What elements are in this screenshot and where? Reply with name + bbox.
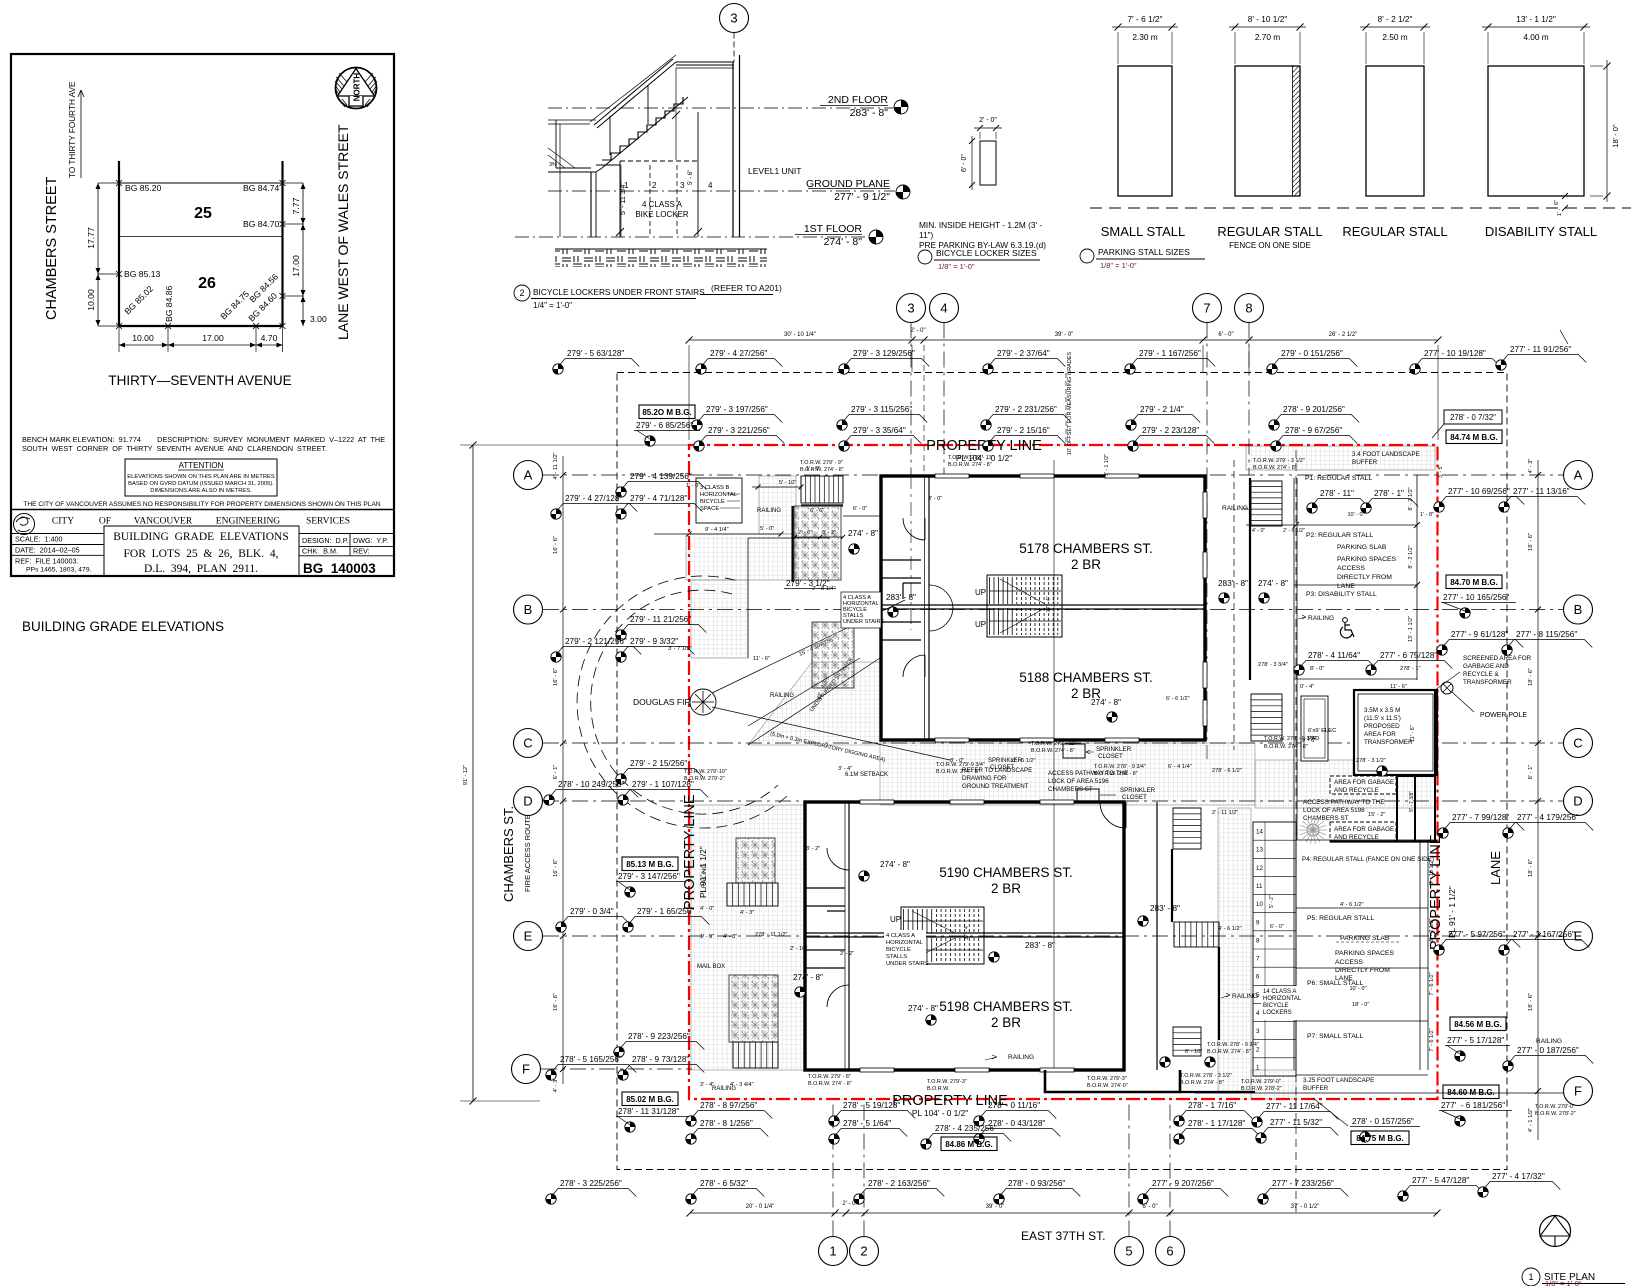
278-3 1/2 marker: [1377, 766, 1387, 776]
18'-0 vertical dim: [1606, 60, 1608, 202]
svg-text:5' - 0": 5' - 0": [760, 526, 774, 532]
svg-text:B.O.R.W. 274' - 8": B.O.R.W. 274' - 8": [936, 769, 980, 775]
svg-text:8' - 0": 8' - 0": [950, 758, 964, 764]
svg-text:SMALL STALL: SMALL STALL: [1101, 224, 1186, 239]
svg-text:SERVICES: SERVICES: [306, 517, 350, 527]
wall under bubble 3: [733, 33, 735, 63]
svg-text:6' - 4 1/4": 6' - 4 1/4": [1168, 764, 1192, 770]
svg-text:6' - 10": 6' - 10": [1185, 1049, 1202, 1055]
mid yard diagonal ramp lines: [748, 658, 880, 745]
svg-text:DATE: 2014–02–05: DATE: 2014–02–05: [15, 546, 80, 555]
svg-text:2' - 2": 2' - 2": [840, 951, 854, 957]
grid bubble D left: [514, 787, 543, 816]
svg-text:P5: REGULAR STALL: P5: REGULAR STALL: [1307, 915, 1374, 922]
svg-text:1' - 8": 1' - 8": [1420, 512, 1434, 518]
elec pad rect: [1301, 696, 1328, 761]
svg-text:B.O.R.W. 274' - 8": B.O.R.W. 274' - 8": [1031, 748, 1075, 754]
svg-text:3' - 2": 3' - 2": [822, 530, 836, 536]
svg-text:277' - 7 233/256": 277' - 7 233/256": [1272, 1179, 1334, 1188]
svg-text:2' - 11 1/2": 2' - 11 1/2": [1212, 810, 1238, 816]
svg-text:3: 3: [907, 301, 914, 316]
14 class A lockers note: [1261, 986, 1299, 1020]
svg-text:278' - 5 19/128": 278' - 5 19/128": [843, 1101, 900, 1110]
svg-text:A: A: [524, 468, 533, 483]
svg-text:278' - 6 5/32": 278' - 6 5/32": [700, 1179, 748, 1188]
sprinkler closet 2: [1077, 789, 1099, 803]
svg-text:1' - 9": 1' - 9": [700, 934, 714, 940]
sprinkler closet 1: [1063, 744, 1085, 758]
svg-text:11: 11: [1256, 883, 1263, 890]
svg-text:274' - 8": 274' - 8": [880, 860, 910, 869]
row3 dim callouts: [699, 426, 784, 444]
lower entry stairs: [727, 883, 778, 906]
svg-text:278' - 5 1/64": 278' - 5 1/64": [843, 1119, 891, 1128]
svg-text:P1: REGULAR STALL: P1: REGULAR STALL: [1305, 475, 1372, 482]
B row callouts right: [1442, 630, 1523, 648]
svg-text:274' - 8": 274' - 8": [1091, 698, 1121, 707]
svg-text:277' - 9 207/256": 277' - 9 207/256": [1152, 1179, 1214, 1188]
svg-text:REGULAR STALL: REGULAR STALL: [1217, 224, 1322, 239]
svg-text:BG 84.70: BG 84.70: [243, 219, 280, 229]
power pole symbol and label: [1441, 682, 1453, 694]
svg-text:277' - 11 13/16": 277' - 11 13/16": [1513, 487, 1570, 496]
parking stall divider P2/P3: [1294, 584, 1417, 586]
svg-text:4 CLASS A: 4 CLASS A: [886, 933, 915, 939]
svg-text:EAST 37TH ST.: EAST 37TH ST.: [1021, 1229, 1105, 1243]
svg-text:283' - 8": 283' - 8": [1025, 941, 1055, 950]
svg-text:B.O.R.W. 274' - 8": B.O.R.W. 274' - 8": [1264, 744, 1308, 750]
svg-text:T.O.R.W. 279' - 3 1/2": T.O.R.W. 279' - 3 1/2": [1253, 458, 1305, 464]
svg-text:BIKE LOCKER: BIKE LOCKER: [635, 210, 689, 219]
svg-text:B.O.R.W. 274' - 8": B.O.R.W. 274' - 8": [1207, 1049, 1251, 1055]
lower parking boundary: [1295, 840, 1297, 1070]
svg-text:2.70 m: 2.70 m: [1255, 32, 1280, 42]
grid line 8 vertical: [1248, 323, 1250, 476]
svg-text:274' - 8": 274' - 8": [1258, 579, 1288, 588]
svg-text:BUILDING GRADE ELEVATIONS: BUILDING GRADE ELEVATIONS: [22, 619, 224, 634]
svg-text:D.L. 394, PLAN 2911.: D.L. 394, PLAN 2911.: [144, 563, 258, 575]
svg-text:14: 14: [1256, 829, 1263, 836]
svg-text:9' - 7 3/8": 9' - 7 3/8": [1409, 791, 1415, 812]
svg-text:T.O.R.W. 279'-0": T.O.R.W. 279'-0": [1535, 1104, 1575, 1110]
svg-text:85.13 M B.G.: 85.13 M B.G.: [626, 860, 674, 869]
left dim 17.77 / 10.00: [97, 183, 99, 326]
svg-text:84.74 M B.G.: 84.74 M B.G.: [1450, 433, 1498, 442]
svg-text:277' - 11 91/256": 277' - 11 91/256": [1510, 345, 1571, 354]
red property line rectangle: [689, 445, 1438, 1099]
svg-text:POWER POLE: POWER POLE: [1480, 712, 1527, 719]
svg-text:91' - 12": 91' - 12": [463, 765, 469, 785]
BG corner marks: [116, 180, 122, 186]
svg-text:UNDER STAIRS: UNDER STAIRS: [843, 619, 885, 625]
svg-text:279' - 2 37/64": 279' - 2 37/64": [997, 349, 1050, 358]
lower building door top right: [1100, 802, 1126, 828]
svg-text:17.00: 17.00: [291, 255, 301, 277]
svg-text:278' - 6 1/2": 278' - 6 1/2": [1212, 768, 1242, 774]
svg-text:SCALE: 1:400: SCALE: 1:400: [15, 535, 63, 544]
svg-text:8' - 1": 8' - 1": [1528, 765, 1534, 780]
svg-text:4' - 3": 4' - 3": [740, 910, 754, 916]
svg-text:P7: SMALL STALL: P7: SMALL STALL: [1307, 1033, 1364, 1040]
svg-text:T.O.R.W. 279'-0": T.O.R.W. 279'-0": [1241, 1079, 1281, 1085]
svg-text:278' - 0 11/16": 278' - 0 11/16": [988, 1101, 1040, 1110]
svg-text:4' - 1 1/2": 4' - 1 1/2": [1528, 1108, 1534, 1132]
svg-text:CLOSET: CLOSET: [1122, 794, 1147, 801]
svg-text:BICYCLE: BICYCLE: [700, 499, 725, 505]
svg-text:T.O.R.W. 279' - 8": T.O.R.W. 279' - 8": [808, 1074, 851, 1080]
svg-text:FENCE ON ONE SIDE: FENCE ON ONE SIDE: [1229, 241, 1311, 250]
svg-text:274' - 8": 274' - 8": [908, 1004, 938, 1013]
svg-text:12: 12: [1256, 865, 1263, 872]
svg-text:279' - 9 3/32": 279' - 9 3/32": [630, 637, 678, 646]
svg-text:277' - 5 47/128": 277' - 5 47/128": [1412, 1176, 1469, 1185]
svg-text:278' - 8 97/256": 278' - 8 97/256": [700, 1101, 757, 1110]
svg-text:UP: UP: [975, 620, 986, 629]
svg-text:5190 CHAMBERS ST.: 5190 CHAMBERS ST.: [939, 865, 1073, 880]
svg-text:279' - 6 85/256": 279' - 6 85/256": [636, 421, 693, 430]
upper planter 1: [794, 506, 841, 580]
svg-text:PPs 1465, 1803, 479.: PPs 1465, 1803, 479.: [26, 567, 91, 574]
grid line D: [543, 800, 1563, 802]
svg-text:BICYCLE LOCKERS UNDER FRONT ST: BICYCLE LOCKERS UNDER FRONT STAIRS: [533, 287, 705, 297]
svg-text:17.77: 17.77: [86, 227, 96, 249]
svg-text:PARKING SPACES: PARKING SPACES: [1337, 556, 1397, 563]
svg-text:UP: UP: [975, 588, 986, 597]
upper building stair core: [987, 575, 1062, 637]
landscape buffer hatch top: [1246, 446, 1435, 470]
grid bubble 1 bottom: [819, 1237, 848, 1266]
svg-text:4' - 3 4/4": 4' - 3 4/4": [730, 1082, 754, 1088]
svg-text:TO THIRTY FOURTH AVE: TO THIRTY FOURTH AVE: [68, 81, 77, 178]
svg-text:13' - 1 1/2": 13' - 1 1/2": [1408, 616, 1414, 642]
svg-text:STALLS: STALLS: [886, 954, 907, 960]
svg-text:BICYCLE: BICYCLE: [1263, 1003, 1289, 1009]
svg-text:B.O.R.W. 274'-0": B.O.R.W. 274'-0": [1087, 1083, 1128, 1089]
svg-text:279' - 3 221/256": 279' - 3 221/256": [708, 426, 770, 435]
svg-text:4' - 6 1/2": 4' - 6 1/2": [1340, 902, 1364, 908]
svg-text:39' - 0": 39' - 0": [986, 1204, 1005, 1210]
svg-text:11"): 11"): [919, 230, 934, 240]
grid bubble F right: [1564, 1077, 1593, 1106]
grid line A: [543, 474, 1563, 476]
svg-text:CLOSET: CLOSET: [990, 765, 1014, 771]
svg-text:T.O.R.W. 278' - 9 3/4": T.O.R.W. 278' - 9 3/4": [1094, 764, 1146, 770]
attention box: [125, 459, 277, 496]
svg-text:A: A: [1574, 468, 1583, 483]
svg-text:B: B: [524, 602, 533, 617]
svg-text:1/8" = 1'-0": 1/8" = 1'-0": [1545, 1279, 1582, 1286]
svg-text:REGULAR STALL: REGULAR STALL: [1342, 224, 1447, 239]
svg-text:FOR LOTS 25 & 26, BLK. 4: FOR LOTS 25 & 26, BLK. 4,: [124, 548, 279, 560]
svg-text:RAILING: RAILING: [1232, 993, 1258, 1000]
svg-text:279' - 0 151/256": 279' - 0 151/256": [1281, 349, 1343, 358]
svg-text:LANE WEST OF WALES STREET: LANE WEST OF WALES STREET: [335, 124, 351, 340]
svg-text:4: 4: [1256, 1010, 1260, 1017]
top row dim callouts: [558, 349, 639, 367]
svg-text:RAILING: RAILING: [1536, 1038, 1562, 1045]
svg-text:9' - 4 1/4": 9' - 4 1/4": [705, 527, 729, 533]
svg-text:5188 CHAMBERS ST.: 5188 CHAMBERS ST.: [1019, 670, 1153, 685]
svg-text:283' - 8": 283' - 8": [1150, 904, 1180, 913]
svg-text:7.77: 7.77: [291, 197, 301, 214]
svg-text:37' - 4": 37' - 4": [1046, 596, 1052, 612]
svg-text:8' - 10 1/2": 8' - 10 1/2": [1248, 14, 1288, 24]
stair vertical supports: [647, 86, 649, 124]
svg-text:8' - 10 1/2": 8' - 10 1/2": [1429, 859, 1435, 885]
svg-text:3: 3: [680, 181, 685, 190]
svg-text:18' - 6": 18' - 6": [1528, 859, 1534, 877]
svg-text:8' - 2 1/2": 8' - 2 1/2": [1429, 918, 1435, 941]
mid landing line: [596, 164, 620, 166]
lower yard planter 3: [736, 838, 775, 883]
svg-text:LANE: LANE: [1488, 851, 1503, 885]
svg-text:277' - 5 17/128": 277' - 5 17/128": [1447, 1036, 1504, 1045]
left grid dim line with row labels: [562, 456, 564, 1084]
grid bubble C left: [514, 729, 543, 758]
walkway hatch central corridor: [880, 743, 1255, 805]
city logo: [14, 514, 35, 535]
svg-text:11' - 6": 11' - 6": [753, 656, 770, 662]
svg-text:1' - 0": 1' - 0": [686, 483, 700, 489]
svg-text:277' - 9 1/2": 277' - 9 1/2": [834, 191, 890, 203]
svg-text:277' - 7 99/128": 277' - 7 99/128": [1452, 813, 1509, 822]
right dim 7.77 / 17.00: [302, 183, 304, 326]
svg-text:1ST FLOOR: 1ST FLOOR: [804, 223, 863, 235]
svg-text:18' - 0": 18' - 0": [1611, 124, 1620, 148]
svg-text:17.00: 17.00: [202, 333, 224, 343]
svg-text:B.O.R.W. 279'-2": B.O.R.W. 279'-2": [684, 776, 725, 782]
svg-text:279' - 2 1/4": 279' - 2 1/4": [1140, 405, 1184, 414]
svg-text:9: 9: [1256, 919, 1260, 926]
upper entry landing lines: [748, 537, 830, 539]
svg-text:2' - 6": 2' - 6": [798, 530, 812, 536]
svg-text:P4: REGULAR STALL (FANCE ON ON: P4: REGULAR STALL (FANCE ON ONE SIDE): [1302, 856, 1434, 863]
svg-text:RECYCLE &: RECYCLE &: [1463, 671, 1499, 678]
svg-text:BENCH MARK ELEVATION: 91.774: BENCH MARK ELEVATION: 91.774 DESCRIPTION…: [22, 435, 385, 444]
right grid dim line with row labels: [1537, 460, 1539, 1140]
svg-text:D: D: [523, 794, 532, 809]
svg-text:278' - 0 157/256": 278' - 0 157/256": [1352, 1117, 1414, 1126]
svg-text:DIRECTLY FROM: DIRECTLY FROM: [1335, 967, 1390, 974]
svg-text:2: 2: [860, 1244, 867, 1259]
svg-text:10' - 0": 10' - 0": [1347, 512, 1364, 518]
svg-text:5178 CHAMBERS ST.: 5178 CHAMBERS ST.: [1019, 541, 1153, 556]
svg-text:278' - 10 249/256": 278' - 10 249/256": [558, 780, 624, 789]
svg-text:2 BR: 2 BR: [991, 1015, 1021, 1030]
svg-text:10.00: 10.00: [132, 333, 154, 343]
svg-text:279' - 3 115/256": 279' - 3 115/256": [851, 405, 912, 414]
svg-text:6' - 6 1/2": 6' - 6 1/2": [1166, 696, 1190, 702]
svg-text:1/4" = 1'-0": 1/4" = 1'-0": [533, 301, 572, 310]
svg-text:LANE: LANE: [1337, 583, 1355, 590]
svg-text:4' - 3": 4' - 3": [1528, 459, 1534, 474]
lower building entry recesses: [805, 888, 845, 968]
svg-text:279' - 2 231/256": 279' - 2 231/256": [995, 405, 1057, 414]
svg-text:1/8" = 1'-0": 1/8" = 1'-0": [938, 262, 975, 271]
grid bubble C right: [1564, 729, 1593, 758]
svg-text:3' - 4": 3' - 4": [838, 766, 852, 772]
svg-text:3: 3: [730, 11, 737, 26]
bike locker enclosure dashed: [619, 161, 621, 237]
upper parking boundary lines: [1249, 478, 1251, 680]
svg-text:277' - 4 179/256": 277' - 4 179/256": [1517, 813, 1579, 822]
grid bubble E right: [1564, 922, 1593, 951]
svg-text:RAILING: RAILING: [1008, 1054, 1034, 1061]
grid bubble 4 top: [930, 294, 959, 323]
svg-text:278' - 4 11/64": 278' - 4 11/64": [1308, 651, 1360, 660]
svg-text:1: 1: [829, 1244, 836, 1259]
svg-text:C: C: [523, 736, 532, 751]
svg-text:B.O.R.W. 278'-2": B.O.R.W. 278'-2": [1241, 1086, 1282, 1092]
douglas fir tree circle: [690, 689, 716, 715]
svg-text:279' - 0 3/4": 279' - 0 3/4": [570, 907, 614, 916]
svg-text:CHAMBERS ST.: CHAMBERS ST.: [501, 806, 516, 902]
svg-text:4' - 0": 4' - 0": [1252, 528, 1265, 534]
svg-text:BUILDING GRADE ELEVATIONS: BUILDING GRADE ELEVATIONS: [113, 531, 288, 543]
svg-text:279' - 3 35/64": 279' - 3 35/64": [853, 426, 906, 435]
svg-text:283' - 8": 283' - 8": [886, 593, 916, 602]
svg-text:84.70 M B.G.: 84.70 M B.G.: [1450, 578, 1498, 587]
title table: [11, 509, 394, 511]
85.02 M B.G. box: [622, 1092, 678, 1106]
F row callouts left: [619, 1032, 704, 1050]
upper building central door arcs: [929, 585, 953, 609]
svg-text:278' - 11": 278' - 11": [1320, 489, 1354, 498]
upper planter 2: [812, 622, 854, 688]
svg-text:RAILING: RAILING: [702, 864, 708, 888]
svg-text:278' - 1": 278' - 1": [1374, 489, 1404, 498]
svg-text:PARKING SLAB: PARKING SLAB: [1337, 544, 1387, 551]
svg-text:LOCKERS: LOCKERS: [1263, 1010, 1292, 1016]
bike locker size detail rect: [980, 141, 996, 185]
svg-text:85.02 M B.G.: 85.02 M B.G.: [626, 1095, 674, 1104]
row2 dim callouts: [697, 405, 782, 423]
svg-text:BASED ON GVRD DATUM (ISSUED MA: BASED ON GVRD DATUM (ISSUED MARCH 31, 20…: [128, 481, 274, 487]
svg-text:PARKING STALL SIZES: PARKING STALL SIZES: [1098, 247, 1190, 257]
fire access route dashes left: [489, 445, 491, 1101]
svg-text:ELEVATIONS SHOWN ON THIS PLAN: ELEVATIONS SHOWN ON THIS PLAN ARE IN MET…: [127, 474, 275, 480]
svg-text:278' - 3 1/2": 278' - 3 1/2": [1356, 758, 1386, 764]
svg-text:279' - 2 15/256": 279' - 2 15/256": [630, 759, 687, 768]
grid line E: [543, 935, 1563, 937]
svg-text:REF: FILE 140003.: REF: FILE 140003.: [15, 557, 79, 566]
svg-text:F: F: [1574, 1084, 1582, 1099]
bottom row3 callouts: [551, 1179, 636, 1197]
svg-text:DIRECTLY FROM: DIRECTLY FROM: [1337, 574, 1392, 581]
bottom row2 callouts: [691, 1119, 768, 1137]
D row callouts right: [1443, 813, 1524, 831]
stall dimension lines: [1112, 26, 1178, 28]
svg-text:DISABILITY STALL: DISABILITY STALL: [1485, 224, 1597, 239]
site plan caption: [1522, 1268, 1540, 1286]
svg-text:279' - 2 121/256": 279' - 2 121/256": [565, 637, 627, 646]
grid line 7 vertical: [1206, 323, 1208, 476]
svg-text:279' - 2 23/128": 279' - 2 23/128": [1142, 426, 1199, 435]
svg-text:278' - 3 225/256": 278' - 3 225/256": [560, 1179, 622, 1188]
bottom row1 callouts: [691, 1101, 772, 1119]
2nd floor level line: [548, 107, 893, 109]
landscape buffer hatch bottom right: [1251, 1070, 1296, 1099]
svg-text:6: 6: [1166, 1244, 1173, 1259]
svg-text:278' - 3 3/4": 278' - 3 3/4": [1258, 662, 1288, 668]
parking stall divider P1/P2: [1246, 524, 1417, 526]
walkway hatch locker aisle: [1218, 808, 1251, 1092]
bottom dims 10.00 17.00 4.70: [119, 344, 283, 346]
84.86 M B.G. box and callout: [926, 1124, 1011, 1142]
drawing title box: [104, 526, 299, 576]
svg-text:DESIGN: D.P.: DESIGN: D.P.: [302, 536, 349, 545]
svg-text:2.50 m: 2.50 m: [1382, 32, 1407, 42]
grid bubble 3 above stair section: [720, 4, 749, 33]
svg-text:18' - 0": 18' - 0": [1352, 1002, 1369, 1008]
6'-0 dim vertical: [971, 136, 973, 190]
svg-text:FIRE ACCESS ROUTE: FIRE ACCESS ROUTE: [523, 814, 532, 892]
svg-text:8: 8: [1256, 937, 1260, 944]
P7 bottom line: [1296, 1074, 1428, 1076]
svg-text:7' - 6 1/2": 7' - 6 1/2": [1429, 1028, 1435, 1051]
svg-text:26' - 2 1/2": 26' - 2 1/2": [1329, 332, 1358, 338]
grid line C: [543, 742, 1563, 744]
A row callouts right: [1439, 487, 1524, 505]
svg-text:PROPERTY LINE: PROPERTY LINE: [682, 794, 698, 910]
2'-0 dim: [974, 127, 1002, 129]
upper entry stairs: [801, 476, 843, 503]
svg-text:3' - 4": 3' - 4": [700, 1082, 714, 1088]
lower yard planter 4: [729, 975, 778, 1042]
svg-text:1/8" = 1'-0": 1/8" = 1'-0": [1100, 261, 1137, 270]
svg-text:SPACE: SPACE: [700, 506, 719, 512]
svg-text:277' - 6 181/256": 277' - 6 181/256": [1441, 1101, 1505, 1110]
svg-text:278' - 4 235/256": 278' - 4 235/256": [935, 1124, 997, 1133]
P5/P6 divider: [1296, 967, 1428, 969]
walkway hatch left strip upper: [691, 580, 748, 658]
svg-text:6.1M SETBACK: 6.1M SETBACK: [845, 772, 888, 778]
parking right edge line lower: [1427, 840, 1429, 1070]
svg-text:D: D: [1573, 794, 1582, 809]
B row callouts left: [621, 615, 706, 633]
svg-text:VANCOUVER: VANCOUVER: [134, 517, 193, 527]
svg-text:277' - 6 75/128": 277' - 6 75/128": [1380, 651, 1437, 660]
svg-text:B.O.R.W.: B.O.R.W.: [927, 1086, 949, 1092]
lower building right side mid landing: [1174, 922, 1219, 947]
top dimension line: [689, 339, 1438, 341]
svg-text:PL 104' - 0 1/2": PL 104' - 0 1/2": [912, 1108, 968, 1118]
svg-text:B.O.R.W. 274' - 8": B.O.R.W. 274' - 8": [1253, 465, 1297, 471]
ground plane level line: [548, 190, 895, 192]
upper building party wall: [881, 604, 1205, 606]
svg-text:AND RECYCLE: AND RECYCLE: [1334, 787, 1379, 794]
svg-text:25: 25: [194, 205, 212, 222]
svg-text:4' - 11 1/2": 4' - 11 1/2": [553, 452, 559, 479]
svg-text:2' - 8 1/4": 2' - 8 1/4": [812, 586, 836, 592]
svg-text:16' - 6": 16' - 6": [553, 993, 559, 1011]
svg-text:T.O.R.W. 279' - 11": T.O.R.W. 279' - 11": [1031, 741, 1076, 747]
grid line 2 vertical bottom: [863, 1099, 865, 1237]
bicycle lockers under front stairs caption: [514, 285, 530, 301]
svg-text:3.4 FOOT LANDSCAPE: 3.4 FOOT LANDSCAPE: [1352, 451, 1420, 458]
svg-text:8: 8: [1245, 301, 1252, 316]
grid line F right: [1195, 1092, 1563, 1094]
svg-text:T.O.R.W. 279'-3": T.O.R.W. 279'-3": [1087, 1076, 1127, 1082]
grid line F left: [541, 1068, 692, 1070]
svg-text:E: E: [524, 929, 533, 944]
svg-text:274' - 8": 274' - 8": [824, 236, 863, 248]
svg-text:(11.5' x 11.5'): (11.5' x 11.5'): [1364, 715, 1401, 722]
svg-text:2' - 0": 2' - 0": [910, 328, 925, 334]
grid line B: [543, 609, 1563, 611]
svg-text:279' - 3 129/256": 279' - 3 129/256": [853, 349, 915, 358]
left overall dimension line: [472, 445, 474, 1101]
